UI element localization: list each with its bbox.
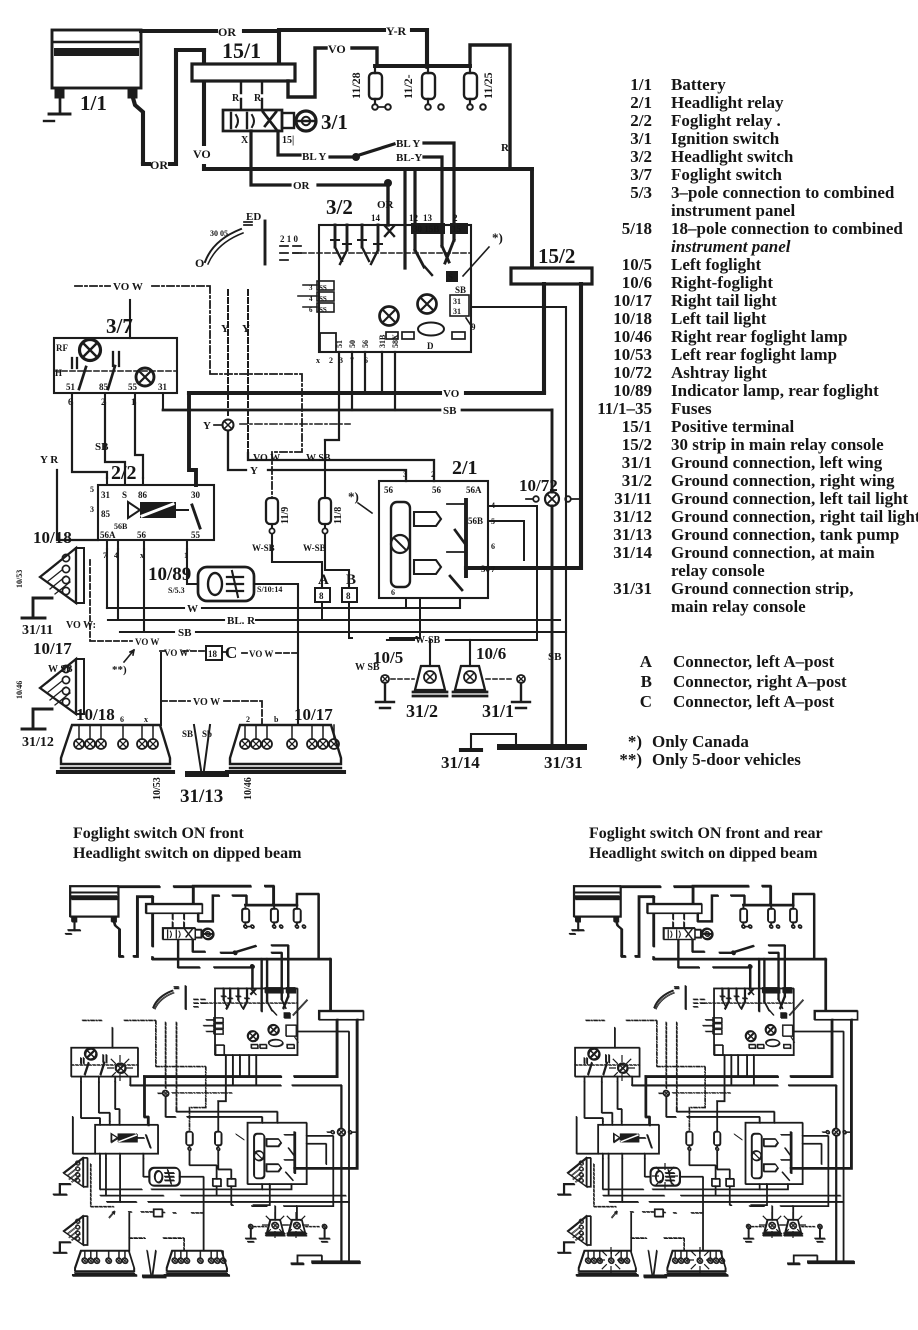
svg-text:Headlight relay: Headlight relay <box>671 93 784 112</box>
svg-text:Fuses: Fuses <box>671 399 712 418</box>
svg-text:10/53: 10/53 <box>15 570 24 588</box>
svg-text:8: 8 <box>319 591 324 601</box>
svg-text:Foglight switch ON front: Foglight switch ON front <box>73 825 244 842</box>
svg-text:15/1: 15/1 <box>222 38 261 63</box>
svg-text:C: C <box>225 643 237 662</box>
2/2 top pin stubs <box>107 478 196 485</box>
3/2 inverse labels 30/15B <box>411 223 445 234</box>
svg-text:4: 4 <box>309 295 313 303</box>
svg-text:VO W: VO W <box>193 697 220 708</box>
pin R right of 15/1 <box>261 81 263 110</box>
svg-text:10/17: 10/17 <box>33 639 72 658</box>
wire OR drop into 3/2 <box>386 185 389 225</box>
svg-text:C: C <box>640 692 652 711</box>
pin R left of 15/1 <box>240 81 242 110</box>
svg-text:Indicator lamp, rear foglight: Indicator lamp, rear foglight <box>671 381 879 400</box>
lamp switch illumination in 3/2 <box>418 295 437 314</box>
relay 2/1 <box>379 481 488 598</box>
wire 2/1 pin4 wrap to foglight feed <box>470 506 537 640</box>
svg-text:15: 15 <box>452 224 462 234</box>
svg-text:VO W:: VO W: <box>66 620 96 631</box>
svg-text:x: x <box>316 356 320 365</box>
svg-text:14: 14 <box>371 213 381 223</box>
svg-text:Ashtray light: Ashtray light <box>671 363 767 382</box>
tail light assembly 10/18 left <box>58 725 173 772</box>
wire fuse bus to R drop <box>470 45 510 169</box>
wire ignition X pin to OR line <box>251 131 388 185</box>
svg-text:1/1: 1/1 <box>630 75 652 94</box>
svg-text:11/28: 11/28 <box>349 72 363 99</box>
svg-text:85: 85 <box>101 509 111 519</box>
svg-text:10/53: 10/53 <box>152 777 163 800</box>
svg-text:10/46: 10/46 <box>613 327 652 346</box>
svg-text:31/12: 31/12 <box>613 507 652 526</box>
svg-text:85: 85 <box>99 382 109 392</box>
3/2 S contact block <box>446 271 472 327</box>
bottom-left diagram: foglight switch ON front <box>54 886 364 1277</box>
svg-text:7: 7 <box>491 565 495 574</box>
svg-text:VO W: VO W <box>249 649 273 659</box>
wire 15/1 hook to VO fuse feed <box>288 48 377 97</box>
svg-text:3: 3 <box>309 284 313 292</box>
svg-text:Foglight switch ON front and r: Foglight switch ON front and rear <box>589 825 823 842</box>
burst right diagram foglight 10/6 <box>780 1212 806 1238</box>
svg-text:18: 18 <box>208 649 218 659</box>
svg-text:*): *) <box>628 732 642 751</box>
svg-text:3/7: 3/7 <box>106 314 133 338</box>
connector B square <box>342 588 357 602</box>
svg-text:S/5.3: S/5.3 <box>168 586 185 595</box>
svg-text:2: 2 <box>246 715 250 724</box>
svg-text:3: 3 <box>403 470 407 479</box>
wire VO-W dashed from connector <box>90 560 132 641</box>
wire ignition 15 pin to BL-Y <box>278 131 356 157</box>
svg-text:R: R <box>254 93 262 104</box>
wires 2/1 bottom pins <box>406 598 420 608</box>
wire W-SB to foglights <box>387 639 470 641</box>
dashed line through 3/2 <box>293 252 471 254</box>
svg-text:Only Canada: Only Canada <box>652 732 749 751</box>
svg-text:3/2: 3/2 <box>326 195 353 219</box>
svg-text:3–pole connection to combined: 3–pole connection to combined <box>671 183 895 202</box>
svg-text:6: 6 <box>120 715 124 724</box>
svg-text:BL-Y: BL-Y <box>396 152 422 164</box>
svg-text:3/1: 3/1 <box>630 129 652 148</box>
svg-text:Y-R: Y-R <box>386 24 407 38</box>
wire VO-W drop to left assembly <box>160 653 162 725</box>
foglight 10/5 <box>413 666 447 696</box>
svg-text:31B: 31B <box>378 334 387 348</box>
svg-text:Ground connection, left tail l: Ground connection, left tail light <box>671 489 909 508</box>
wire SB horizontal <box>163 409 552 412</box>
wire 15/2 right drop to relay 30 <box>466 284 581 568</box>
svg-text:Right-foglight: Right-foglight <box>671 273 773 292</box>
svg-text:W SB: W SB <box>306 453 331 464</box>
svg-text:H: H <box>55 368 62 378</box>
svg-text:S: S <box>122 490 127 500</box>
svg-text:1/1: 1/1 <box>80 91 107 115</box>
svg-text:31/14: 31/14 <box>441 753 480 772</box>
wire Y-R left drop <box>57 470 98 540</box>
burst right diagram foglight 10/5 <box>759 1212 785 1238</box>
svg-text:W: W <box>187 603 198 615</box>
wires 3/2 bottom drops <box>325 352 395 440</box>
svg-text:10/89: 10/89 <box>613 381 652 400</box>
svg-text:B: B <box>641 672 652 691</box>
svg-text:Ground connection, left wing: Ground connection, left wing <box>671 453 883 472</box>
svg-text:6: 6 <box>364 356 368 365</box>
svg-text:VO W`: VO W` <box>164 648 191 658</box>
foglight switch 3/7 box <box>54 338 177 393</box>
svg-text:10/53: 10/53 <box>613 345 652 364</box>
battery 1/1 <box>44 30 141 121</box>
svg-text:10/18: 10/18 <box>613 309 652 328</box>
svg-text:OR: OR <box>150 158 168 172</box>
svg-text:Ground connection, tank pump: Ground connection, tank pump <box>671 525 899 544</box>
svg-text:W-SB: W-SB <box>303 543 326 553</box>
svg-text:VO: VO <box>193 147 211 161</box>
wire ashtray drop to ground bus <box>551 410 554 747</box>
svg-text:RF: RF <box>56 343 68 353</box>
svg-text:30 05: 30 05 <box>210 229 228 238</box>
svg-text:56: 56 <box>432 485 442 495</box>
wire 2/2 to SB line <box>143 549 145 632</box>
svg-text:31: 31 <box>453 307 461 316</box>
svg-text:A: A <box>318 572 329 588</box>
wire VO-W dash-dot from 3/7 top <box>75 286 302 498</box>
wire Y dash-dot continuation <box>240 423 350 425</box>
svg-text:5/3: 5/3 <box>630 183 652 202</box>
svg-text:A: A <box>640 652 653 671</box>
svg-text:8: 8 <box>346 591 351 601</box>
svg-text:4: 4 <box>114 551 118 560</box>
svg-text:VO: VO <box>443 388 460 400</box>
lamps in left assembly <box>74 739 158 749</box>
burst right diagram 3/7 lamp <box>609 1055 635 1081</box>
fuse 11/2 <box>422 66 444 110</box>
burst left diagram 3/7 lamp <box>107 1055 133 1081</box>
svg-text:11/8: 11/8 <box>333 507 344 524</box>
svg-text:Connector, left A–post: Connector, left A–post <box>673 652 835 671</box>
ground bus 31/31 <box>500 744 584 750</box>
wire R drop to 15/2 <box>530 169 534 268</box>
3/2 X mark pin 14 <box>385 226 394 236</box>
svg-text:11/1–35: 11/1–35 <box>597 399 652 418</box>
svg-text:56A: 56A <box>466 485 482 495</box>
connector 10/17 wedge <box>40 659 84 714</box>
connector C box 18 <box>206 646 222 660</box>
svg-text:S/10:14: S/10:14 <box>257 585 282 594</box>
wire OR segment at y=164 <box>143 50 204 164</box>
connector circle on Y wire <box>214 420 234 431</box>
wire long horizontal y=169 to R <box>204 167 532 171</box>
svg-text:18–pole connection to combined: 18–pole connection to combined <box>671 219 903 238</box>
svg-text:2: 2 <box>101 397 106 407</box>
svg-text:10/17: 10/17 <box>613 291 652 310</box>
ground bar 31/13 <box>188 771 226 777</box>
svg-text:31/31: 31/31 <box>544 753 583 772</box>
svg-text:B: B <box>346 572 356 588</box>
svg-text:56B: 56B <box>468 516 483 526</box>
burst right diagram indicator 10/89 <box>652 1163 678 1189</box>
svg-text:10/72: 10/72 <box>519 476 558 495</box>
svg-text:10/89: 10/89 <box>148 564 191 585</box>
svg-text:7: 7 <box>103 551 107 560</box>
wire SB pin9 to right vertical <box>472 307 566 747</box>
svg-text:instrument panel: instrument panel <box>671 201 795 220</box>
3/2 inverse label 15A <box>450 223 468 234</box>
svg-text:OR: OR <box>293 180 311 192</box>
svg-text:R: R <box>232 93 240 104</box>
burst right diagram rear lamp right <box>687 1247 713 1273</box>
tail light assembly 10/17 right <box>227 725 344 772</box>
svg-text:3/2: 3/2 <box>630 147 652 166</box>
svg-text:15/1: 15/1 <box>622 417 652 436</box>
svg-text:31/2: 31/2 <box>406 701 438 721</box>
svg-text:11/2-: 11/2- <box>401 74 415 99</box>
svg-text:**): **) <box>619 750 642 769</box>
wire feed foglight 10/5 <box>429 640 431 666</box>
fuse 11/25 <box>464 66 486 110</box>
svg-text:15/2: 15/2 <box>538 244 575 268</box>
svg-text:3/7: 3/7 <box>630 165 652 184</box>
svg-text:SS: SS <box>319 295 327 303</box>
lamp in 3/7 left <box>80 340 101 361</box>
svg-text:6: 6 <box>391 588 395 597</box>
svg-text:31/2: 31/2 <box>622 471 652 490</box>
svg-text:Ignition switch: Ignition switch <box>671 129 780 148</box>
svg-text:10/46: 10/46 <box>243 777 254 800</box>
terminal blocks SS <box>298 281 334 312</box>
svg-text:6: 6 <box>491 542 495 551</box>
svg-text:x: x <box>140 551 144 560</box>
svg-text:55: 55 <box>128 382 138 392</box>
svg-text:10/6: 10/6 <box>476 644 506 663</box>
svg-text:Sb: Sb <box>202 729 212 739</box>
wire 10/89 right to rear drop <box>254 584 298 725</box>
wire 3/7 pin55 to 2/2 <box>135 403 143 478</box>
svg-text:VO W: VO W <box>253 453 280 464</box>
svg-text:**): **) <box>112 664 127 676</box>
ignition switch 3/1 <box>223 110 316 131</box>
svg-text:31/1: 31/1 <box>622 453 652 472</box>
svg-text:86: 86 <box>138 490 148 500</box>
svg-text:SB: SB <box>455 285 466 295</box>
svg-text:ED: ED <box>246 211 261 223</box>
dashed line through 3/7 <box>54 370 177 372</box>
svg-text:Right tail light: Right tail light <box>671 291 777 310</box>
lamp in 3/7 right <box>136 368 154 386</box>
svg-text:30 strip in main relay console: 30 strip in main relay console <box>671 435 884 454</box>
svg-text:10/5: 10/5 <box>622 255 652 274</box>
ground 31/2 <box>376 675 414 708</box>
wire 3/7 pin6 to 2/2 <box>72 403 107 478</box>
fuse 11/28 <box>369 66 391 110</box>
svg-text:BL. R: BL. R <box>227 615 256 627</box>
svg-text:Connector, right A–post: Connector, right A–post <box>673 672 847 691</box>
connector A square <box>315 588 330 602</box>
svg-text:SB: SB <box>95 441 109 453</box>
ground 31/1 <box>486 675 530 708</box>
wire VO vertical x=204 <box>202 50 206 169</box>
wire Y dashed right <box>247 290 249 453</box>
svg-text:Headlight switch on dipped bea: Headlight switch on dipped beam <box>589 845 818 862</box>
svg-text:OR: OR <box>218 25 236 39</box>
svg-text:51: 51 <box>335 340 344 348</box>
tank pump ground wires <box>194 725 210 770</box>
svg-text:30: 30 <box>191 490 201 500</box>
svg-text:4: 4 <box>491 501 495 510</box>
svg-text:Y R: Y R <box>40 454 59 466</box>
svg-text:SS: SS <box>319 306 327 314</box>
svg-text:Only 5-door vehicles: Only 5-door vehicles <box>652 750 801 769</box>
wire Y to relay 2/1 pin 3 <box>228 431 406 481</box>
arrow note **) <box>124 650 134 662</box>
svg-text:55: 55 <box>191 530 201 540</box>
svg-text:b: b <box>274 715 279 724</box>
svg-text:2: 2 <box>329 356 333 365</box>
svg-text:56: 56 <box>361 340 370 348</box>
wire BL Y upper <box>356 143 454 228</box>
svg-text:Left tail light: Left tail light <box>671 309 767 328</box>
svg-text:3: 3 <box>90 505 94 514</box>
burst left diagram foglight 10/6 <box>283 1212 309 1238</box>
svg-text:2/1: 2/1 <box>630 93 652 112</box>
svg-text:56: 56 <box>384 485 394 495</box>
svg-text:2/1: 2/1 <box>452 457 478 479</box>
svg-text:58X: 58X <box>391 334 400 348</box>
3/7 pin stubs <box>72 393 163 410</box>
svg-text:31/13: 31/13 <box>613 525 652 544</box>
svg-text:31: 31 <box>453 297 461 306</box>
svg-text:D: D <box>427 341 434 351</box>
svg-text:7: 7 <box>350 356 354 365</box>
svg-text:Battery: Battery <box>671 75 726 94</box>
svg-text:W-SB: W-SB <box>415 635 441 646</box>
svg-text:31/31: 31/31 <box>613 579 652 598</box>
svg-text:3/1: 3/1 <box>321 110 348 134</box>
line to *) note <box>463 247 489 276</box>
wire 2/2 pin1 to 10/89 <box>187 549 198 584</box>
fuse 11/8 column <box>319 440 349 588</box>
lamps in right assembly <box>240 739 339 749</box>
svg-text:Left foglight: Left foglight <box>671 255 762 274</box>
svg-text:Ground connection strip,: Ground connection strip, <box>671 579 853 598</box>
svg-text:1: 1 <box>184 551 188 560</box>
svg-text:12: 12 <box>409 213 419 223</box>
svg-text:31: 31 <box>101 490 111 500</box>
svg-text:O: O <box>195 256 204 270</box>
wire battery positive to OR run <box>133 98 143 162</box>
svg-text:31/13: 31/13 <box>180 786 223 807</box>
foglight 10/6 <box>453 666 487 696</box>
svg-text:Positive terminal: Positive terminal <box>671 417 794 436</box>
wire A square down <box>321 602 323 620</box>
wire B square down to W-SB <box>349 598 420 638</box>
svg-text:BL Y: BL Y <box>396 138 420 150</box>
svg-text:31/11: 31/11 <box>614 489 652 508</box>
svg-text:56B: 56B <box>114 522 128 531</box>
svg-text:31: 31 <box>158 382 168 392</box>
wire heavy VO to 2/2 pin30 <box>189 393 196 485</box>
svg-text:2: 2 <box>431 470 435 479</box>
svg-text:Foglight switch: Foglight switch <box>671 165 783 184</box>
svg-text:10/5: 10/5 <box>373 648 403 667</box>
svg-text:5/18: 5/18 <box>622 219 652 238</box>
svg-text:50: 50 <box>348 340 357 348</box>
svg-text:instrument panel: instrument panel <box>671 237 791 256</box>
3/2 internal feed contacts <box>405 169 454 275</box>
indicator lamp 10/89 <box>198 567 254 601</box>
svg-text:Right rear foglight lamp: Right rear foglight lamp <box>671 327 847 346</box>
svg-text:Y: Y <box>221 323 229 335</box>
ground 31/14 bracket <box>461 734 516 750</box>
svg-text:Ground connection, right tail: Ground connection, right tail light <box>671 507 918 526</box>
svg-text:W SB: W SB <box>48 664 73 675</box>
junction fuse bus / Y-R <box>424 63 430 69</box>
relay 2/2 <box>98 485 214 540</box>
junction dot BL-Y <box>352 153 360 161</box>
svg-text:SS: SS <box>319 284 327 292</box>
terminal strip 15/1 <box>192 64 295 81</box>
wire VO-W dashes to C <box>160 651 298 653</box>
svg-text:6: 6 <box>309 306 313 314</box>
wire 2/2 to BL-R line <box>117 549 119 620</box>
wire 2/1 pin5 wrap <box>488 521 524 560</box>
2/2 bottom pin stubs <box>107 540 187 549</box>
svg-text:5: 5 <box>90 485 94 494</box>
svg-text:Y: Y <box>203 420 211 432</box>
junction dot OR <box>384 179 392 187</box>
svg-text:VO: VO <box>328 42 346 56</box>
svg-text:Headlight switch: Headlight switch <box>671 147 794 166</box>
svg-text:56A: 56A <box>100 530 116 540</box>
svg-text:Y: Y <box>242 323 250 335</box>
wire 2/2 to W line <box>106 549 108 608</box>
svg-text:13: 13 <box>423 213 433 223</box>
svg-text:X: X <box>241 135 249 146</box>
svg-text:relay console: relay console <box>671 561 765 580</box>
wire BL-Y lower <box>424 157 442 228</box>
wire 3/7 pin85 to 2/2 <box>105 403 125 478</box>
wire SB horizontal low <box>120 631 566 633</box>
svg-text:2 1 0: 2 1 0 <box>280 234 299 244</box>
svg-text:Ground connection, right wing: Ground connection, right wing <box>671 471 895 490</box>
svg-text:BL Y: BL Y <box>302 151 326 163</box>
svg-text:6: 6 <box>68 397 73 407</box>
strip 15/2 <box>511 268 592 284</box>
svg-text:*): *) <box>348 489 359 504</box>
headlight switch 3/2 box <box>319 225 471 352</box>
lamp ashtray 10/72 <box>526 492 581 506</box>
svg-text:31/11: 31/11 <box>22 623 53 638</box>
svg-text:31/1: 31/1 <box>482 701 514 721</box>
ground 31/12 <box>22 709 52 729</box>
3/2 contact pins <box>331 225 382 264</box>
svg-text:10/6: 10/6 <box>622 273 652 292</box>
wire Y to relay 2/1 pin 2 <box>248 453 434 481</box>
svg-text:SB: SB <box>548 651 562 663</box>
svg-text:S: S <box>448 272 453 282</box>
burst right diagram rear lamp left <box>598 1247 624 1273</box>
line to *) note at 2/1 <box>358 503 372 513</box>
svg-text:Ground connection, at main: Ground connection, at main <box>671 543 875 562</box>
svg-text:5: 5 <box>491 517 495 526</box>
svg-text:2/2: 2/2 <box>630 111 652 130</box>
svg-text:10/46: 10/46 <box>15 681 24 699</box>
fuse bus <box>375 64 470 68</box>
svg-text:Connector, left A–post: Connector, left A–post <box>673 692 835 711</box>
